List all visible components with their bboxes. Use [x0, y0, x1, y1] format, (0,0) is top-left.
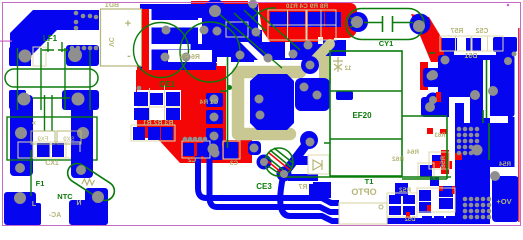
svg-text:L: L — [32, 201, 37, 208]
svg-text:+: + — [125, 18, 131, 30]
svg-text:CY1: CY1 — [379, 39, 394, 48]
svg-text:AC-: AC- — [48, 212, 61, 219]
svg-text:CE1: CE1 — [159, 80, 175, 89]
svg-text:R8 R9 C4 R10: R8 R9 C4 R10 — [285, 3, 328, 10]
svg-text:R3 R2 R1: R3 R2 R1 — [143, 120, 174, 127]
svg-text:C2: C2 — [187, 157, 196, 164]
svg-text:C3: C3 — [229, 160, 238, 167]
svg-text:«: « — [32, 118, 37, 127]
svg-text:SX9: SX9 — [63, 137, 75, 143]
svg-text:BD1: BD1 — [105, 2, 119, 9]
svg-text:R62: R62 — [392, 156, 404, 163]
svg-text:R57: R57 — [450, 28, 463, 35]
svg-text:C1 R4: C1 R4 — [199, 99, 218, 106]
svg-text:R63: R63 — [434, 133, 446, 139]
svg-text:R54: R54 — [499, 161, 511, 168]
svg-text:NTC: NTC — [57, 192, 73, 201]
svg-text:T1: T1 — [365, 177, 374, 186]
svg-text:R7: R7 — [298, 184, 307, 191]
svg-text:VO+: VO+ — [496, 197, 512, 206]
svg-text:D52: D52 — [404, 217, 416, 223]
svg-text:CX1: CX1 — [45, 160, 59, 167]
svg-text:R52: R52 — [399, 187, 411, 194]
svg-text:CE3: CE3 — [256, 182, 272, 191]
svg-text:EF20: EF20 — [352, 111, 372, 120]
svg-text:F1: F1 — [36, 179, 45, 188]
svg-text:R64: R64 — [407, 149, 419, 156]
svg-text:-: - — [127, 50, 131, 62]
svg-text:OPTO: OPTO — [351, 187, 376, 197]
svg-text:VC: VC — [107, 37, 114, 47]
svg-text:R56: R56 — [440, 156, 447, 168]
svg-text:FX9: FX9 — [37, 137, 49, 143]
svg-text:C52: C52 — [475, 28, 488, 35]
svg-text:D51: D51 — [464, 53, 477, 60]
svg-text:12: 12 — [344, 66, 351, 72]
svg-text:R6 R5: R6 R5 — [180, 54, 200, 61]
svg-text:LF1: LF1 — [43, 34, 58, 43]
svg-text:N: N — [76, 200, 81, 207]
